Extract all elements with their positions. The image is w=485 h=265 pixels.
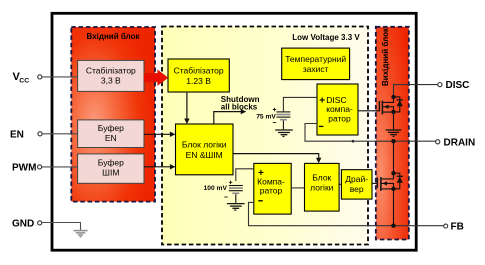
transistor Q2 (main MOSFET) bbox=[377, 171, 395, 191]
wire Блок логіки to driver bbox=[339, 183, 341, 185]
svg-text:all blocks: all blocks bbox=[221, 103, 258, 112]
outer case border bbox=[52, 13, 416, 250]
svg-text:Low Voltage 3.3 V: Low Voltage 3.3 V bbox=[292, 33, 360, 42]
svg-text:ратор: ратор bbox=[328, 113, 351, 123]
red arrow 3,3V to 1.23V bbox=[144, 70, 168, 86]
ground GND bbox=[74, 231, 88, 237]
svg-text:вер: вер bbox=[350, 184, 364, 194]
arrow 1.23V down to logic bbox=[184, 92, 189, 124]
svg-text:EN: EN bbox=[10, 129, 24, 140]
arrow Буфер EN to logic bbox=[144, 132, 175, 137]
svg-text:Драй-: Драй- bbox=[345, 174, 368, 184]
svg-text:Вхідний блок: Вхідний блок bbox=[87, 32, 141, 41]
svg-text:Блок: Блок bbox=[312, 173, 331, 183]
svg-text:3,3 В: 3,3 В bbox=[101, 75, 121, 85]
arrow Буфер ШІМ to logic bbox=[144, 164, 175, 169]
svg-text:Буфер: Буфер bbox=[98, 157, 124, 167]
wire+arrow Shutdown all blocks bbox=[214, 109, 246, 124]
terminal GND bbox=[12, 218, 42, 229]
low voltage region bbox=[162, 27, 368, 245]
regulator box Стабілізатор 1.23 В bbox=[168, 59, 229, 92]
svg-text:EN: EN bbox=[105, 133, 117, 143]
wire 75mV ref to +input bbox=[283, 97, 317, 111]
svg-text:GND: GND bbox=[12, 218, 34, 229]
svg-text:FB: FB bbox=[451, 222, 464, 233]
svg-text:Вихідний блок: Вихідний блок bbox=[381, 27, 390, 86]
svg-text:захист: захист bbox=[303, 64, 329, 74]
logic box Блок логіки bbox=[305, 163, 340, 211]
svg-text:ШІМ: ШІМ bbox=[102, 167, 119, 177]
terminal EN bbox=[10, 129, 42, 140]
driver box Драй-вер bbox=[341, 170, 372, 199]
terminal DRAIN bbox=[436, 137, 476, 148]
logic box Блок логіки EN &ШІМ bbox=[176, 124, 234, 175]
svg-text:75 mV: 75 mV bbox=[256, 114, 276, 121]
terminal PWM bbox=[12, 163, 42, 174]
svg-text:Стабілізатор: Стабілізатор bbox=[86, 65, 136, 75]
wire Компаратор output bbox=[291, 187, 304, 189]
battery 100 mV bbox=[224, 181, 243, 203]
input block (Вхідний блок) bbox=[71, 27, 155, 202]
svg-text:DISC: DISC bbox=[446, 80, 470, 91]
wire DISC net bbox=[394, 85, 438, 97]
comparator box +Компаратор bbox=[254, 163, 291, 214]
transistor Q1 (DISC MOSFET) bbox=[379, 95, 395, 115]
output block (Вихідний блок) bbox=[376, 27, 409, 240]
svg-text:+: + bbox=[319, 95, 325, 106]
terminal VCC bbox=[13, 71, 42, 85]
node DRAIN junction bbox=[391, 139, 395, 143]
terminal DISC bbox=[438, 80, 470, 91]
svg-text:ратор: ратор bbox=[260, 185, 283, 195]
wire GND bbox=[42, 223, 81, 230]
wire EN bbox=[42, 133, 78, 135]
wire logic EN&ШІМ to Блок логіки bbox=[233, 154, 321, 164]
svg-text:Температурний: Температурний bbox=[285, 54, 346, 64]
svg-text:логіки: логіки bbox=[310, 183, 333, 193]
wire 100mV ref to +input bbox=[236, 169, 254, 181]
ground 100 mV bbox=[227, 204, 245, 211]
body diode D2 bbox=[394, 173, 404, 189]
comparator box DISC компаратор bbox=[317, 84, 358, 135]
wire PWM bbox=[42, 166, 78, 168]
wire DRAIN junction to Q2 drain bbox=[393, 141, 395, 173]
svg-text:Стабілізатор: Стабілізатор bbox=[174, 66, 224, 76]
node small on DRAIN net bbox=[352, 140, 355, 143]
wire Компаратор minus input / FB net bbox=[249, 202, 444, 225]
wire driver to Q2 gate bbox=[372, 182, 377, 184]
body diode D1 bbox=[394, 97, 404, 112]
ground 75 mV bbox=[275, 130, 293, 137]
svg-text:CC: CC bbox=[19, 78, 29, 85]
terminal FB bbox=[444, 222, 464, 233]
svg-text:EN &ШІМ: EN &ШІМ bbox=[186, 150, 223, 160]
label Shutdown all blocks bbox=[221, 95, 260, 112]
svg-text:Блок логіки: Блок логіки bbox=[182, 139, 227, 149]
svg-text:100 mV: 100 mV bbox=[204, 185, 228, 192]
buffer box Буфер EN bbox=[78, 120, 144, 148]
ground Q1 source bbox=[386, 112, 402, 136]
wire VCC bbox=[42, 76, 78, 78]
svg-text:Буфер: Буфер bbox=[98, 123, 124, 133]
battery 75 mV bbox=[273, 108, 291, 130]
thermal protection box Температурний захист bbox=[282, 48, 350, 80]
wire DISC comparator output to Q1 gate bbox=[358, 110, 379, 112]
svg-text:PWM: PWM bbox=[12, 163, 36, 174]
buffer box Буфер ШІМ bbox=[78, 154, 144, 183]
wire Q2 source to FB bbox=[393, 189, 395, 226]
wire DISC comparator minus input / DRAIN net bbox=[305, 124, 436, 142]
node FB junction bbox=[391, 224, 395, 228]
svg-text:DRAIN: DRAIN bbox=[444, 137, 476, 148]
svg-text:1.23 В: 1.23 В bbox=[186, 76, 211, 86]
regulator box Стабілізатор 3,3 В bbox=[78, 60, 144, 91]
